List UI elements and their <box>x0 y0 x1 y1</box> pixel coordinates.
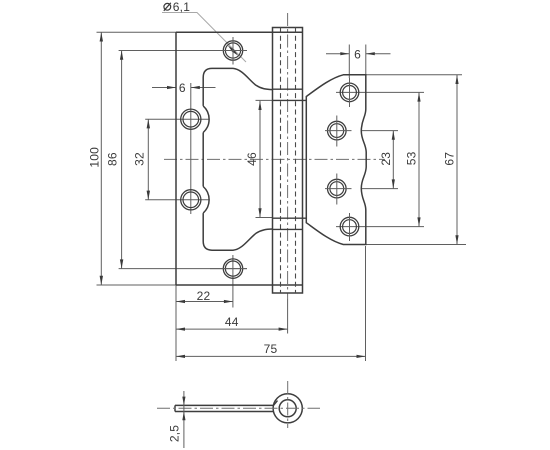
side view knuckle inner circle <box>279 400 296 417</box>
dim line 86 <box>121 51 123 269</box>
left leaf lower middle hole <box>181 190 201 210</box>
right leaf hole 1 <box>340 83 359 102</box>
extension lines for 32 dim (through middle hole center marks) <box>145 119 209 200</box>
dim line 46 <box>259 101 261 218</box>
dim 53 extension lines (through outer right holes) <box>336 92 424 226</box>
dim 46 (middle knuckle) extension stubs <box>256 100 273 217</box>
dim line 32 <box>147 119 149 200</box>
barrel outline <box>273 28 303 294</box>
left leaf hole boss bulge (upper middle hole) <box>203 106 209 133</box>
svg-text:32: 32 <box>133 152 147 166</box>
svg-text:6: 6 <box>354 48 361 62</box>
right edge extension down to 75 dim <box>365 246 367 361</box>
dim line 100 <box>100 32 102 285</box>
left leaf contour between bosses <box>202 133 204 187</box>
dim line 67 <box>456 75 458 245</box>
knuckle joint line top washer <box>273 99 307 101</box>
svg-text:100: 100 <box>88 147 102 168</box>
left leaf top hole <box>223 41 242 60</box>
side view curl step <box>274 401 278 406</box>
dim 2,5 extension line <box>183 391 185 448</box>
svg-text:2,5: 2,5 <box>168 425 182 442</box>
svg-text:53: 53 <box>405 151 419 165</box>
label diameter 6,1 <box>164 0 190 14</box>
left leaf inner cutout contour bottom <box>203 213 272 250</box>
side view vertical centerline <box>287 381 289 428</box>
right leaf outline <box>306 75 366 245</box>
svg-text:23: 23 <box>379 152 393 166</box>
right leaf hole 2 <box>328 121 347 140</box>
svg-text:75: 75 <box>264 342 278 356</box>
dim 67 extension lines <box>366 75 466 245</box>
left leaf upper middle hole <box>181 109 201 129</box>
bottom hole extension down to 22 dim <box>232 255 234 308</box>
barrel hidden pin hole lines <box>281 28 296 294</box>
knuckle joint line bottom <box>273 228 303 230</box>
svg-text:44: 44 <box>225 315 239 329</box>
dim 6 right (hole column to right edge) <box>326 53 391 55</box>
leader line for hole diameter 6,1 <box>162 13 246 63</box>
left leaf outer outline <box>176 32 303 285</box>
dim 23 extension lines <box>362 131 399 189</box>
knuckle joint line bottom washer <box>273 217 307 219</box>
svg-text:86: 86 <box>106 152 120 166</box>
dim line 75 <box>176 355 366 357</box>
left edge extension down to bottom dims <box>175 285 177 361</box>
horizontal centerline of hinge <box>164 158 385 160</box>
side view horizontal centerline <box>157 407 320 409</box>
svg-text:67: 67 <box>443 152 457 166</box>
dim 6 left (edge to hole column) <box>152 87 216 89</box>
svg-text:6,1: 6,1 <box>173 0 190 14</box>
svg-text:22: 22 <box>197 289 211 303</box>
svg-text:46: 46 <box>245 152 259 166</box>
side view knuckle outer circle <box>273 394 302 423</box>
vertical line through left middle holes <box>190 83 192 214</box>
dim line 22 <box>176 301 233 303</box>
dim line 23 <box>392 131 394 189</box>
side view leaf bar <box>175 405 274 411</box>
right leaf hole 3 <box>328 179 347 198</box>
extension lines for 100 dim <box>97 32 177 285</box>
barrel vertical axis centerline <box>287 13 289 299</box>
svg-text:6: 6 <box>179 81 186 95</box>
dim line 44 <box>176 328 288 330</box>
right leaf hole 4 <box>340 217 359 236</box>
left leaf hole boss bulge (lower middle hole) <box>203 187 209 214</box>
knuckle joint line top <box>273 88 303 90</box>
dim line 53 <box>418 92 420 226</box>
extension lines for 86 dim (through top/bottom hole center marks) <box>119 51 247 269</box>
left leaf bottom hole <box>223 259 242 278</box>
left leaf inner cutout contour top <box>203 68 272 106</box>
extension of barrel axis down to 44 dim <box>287 299 289 334</box>
